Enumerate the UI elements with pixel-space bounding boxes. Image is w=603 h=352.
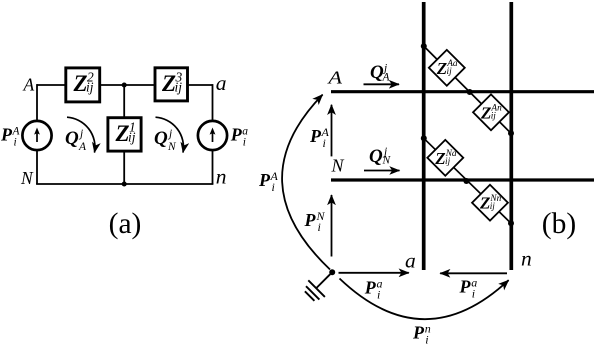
label P_i^a: [230, 125, 249, 149]
svg-text:Q: Q: [65, 128, 79, 149]
impedance Z_ij^2: [66, 68, 100, 102]
svg-text:P: P: [258, 170, 271, 190]
svg-text:i: i: [14, 137, 17, 149]
current source P_i^a (right circle with up arrow): [198, 121, 227, 150]
ground symbol: [305, 274, 330, 301]
wire top A-a: [37, 84, 213, 86]
arrow Q_A^j: [364, 83, 400, 85]
label P_i^A: [0, 125, 21, 149]
power flow arc Q_N^j: [156, 117, 184, 152]
svg-text:ij: ij: [86, 80, 94, 95]
impedance Z_ij^1: [108, 118, 141, 151]
svg-text:P: P: [309, 126, 322, 146]
arc P_i^n: [340, 279, 509, 320]
junction dot diag2 on bus n: [508, 220, 514, 226]
impedance Z_ij^Aa: [429, 50, 465, 86]
svg-text:N: N: [382, 155, 392, 167]
svg-text:P: P: [459, 277, 472, 297]
impedance Z_ij^3: [155, 68, 188, 101]
junction top: [122, 83, 127, 88]
current source P_i^A (left circle with up arrow): [22, 121, 51, 150]
svg-text:a: a: [405, 248, 416, 272]
svg-text:Q: Q: [369, 146, 383, 167]
svg-text:ij: ij: [447, 67, 453, 77]
impedance Z_ij^Nn: [472, 185, 508, 221]
svg-text:n: n: [216, 165, 227, 189]
wire middle branch: [123, 85, 125, 184]
phase line A: [331, 90, 594, 93]
power flow arc Q_A^j: [67, 117, 95, 152]
arc P_i^A (big left arc): [282, 95, 330, 270]
arrow P_i^N (vertical): [331, 195, 333, 257]
wire left branch A-N: [36, 84, 38, 184]
svg-text:ij: ij: [445, 157, 451, 167]
svg-text:ij: ij: [491, 112, 497, 122]
label P_i^A (outer): [258, 169, 279, 194]
svg-text:(a): (a): [109, 208, 142, 240]
label Q_A^j: [370, 62, 391, 83]
label Q_A^j: [65, 128, 87, 153]
svg-text:Z: Z: [436, 59, 447, 78]
label P_i^n: [412, 322, 431, 347]
arrow P_i^a (right, pointing left): [440, 272, 507, 274]
svg-text:(b): (b): [542, 208, 576, 240]
ground node dot: [329, 269, 335, 275]
svg-text:P: P: [304, 210, 317, 230]
svg-text:i: i: [318, 220, 321, 234]
label P_i^a (right): [459, 276, 478, 301]
svg-text:A: A: [78, 141, 87, 153]
svg-text:Z: Z: [480, 103, 491, 122]
coupling diagonal row A: [424, 46, 511, 133]
svg-text:ij: ij: [175, 80, 183, 95]
junction dot diag2 on line N: [463, 178, 469, 184]
svg-text:Q: Q: [154, 128, 168, 149]
label P_i^A (inner): [309, 125, 330, 150]
svg-text:P: P: [0, 125, 13, 145]
wire bottom N-n: [36, 183, 213, 185]
svg-text:i: i: [323, 136, 326, 150]
neutral line N: [331, 178, 594, 181]
svg-text:i: i: [243, 137, 246, 149]
junction dot diag1 on bus n: [508, 130, 514, 136]
arrow P_i^A (vertical): [331, 105, 333, 157]
svg-text:N: N: [331, 156, 345, 176]
impedance Z_ij^Na: [427, 140, 463, 176]
svg-text:i: i: [377, 288, 380, 302]
svg-text:ij: ij: [128, 130, 136, 145]
svg-text:a: a: [216, 71, 227, 95]
svg-text:P: P: [230, 125, 243, 145]
junction dot diag2 on bus a: [421, 135, 427, 141]
svg-text:ij: ij: [490, 202, 496, 212]
svg-text:Z: Z: [434, 149, 445, 168]
label P_i^N: [304, 209, 326, 234]
svg-text:n: n: [521, 247, 532, 271]
bus a (left vertical thick line): [422, 2, 426, 270]
svg-text:A: A: [382, 71, 391, 83]
label Q_N^j: [369, 146, 392, 167]
svg-text:P: P: [364, 278, 377, 298]
bus n (right vertical thick line): [509, 2, 513, 270]
junction dot diag1 on line A: [467, 89, 473, 95]
impedance Z_ij^An: [473, 94, 509, 130]
svg-text:N: N: [167, 141, 177, 153]
coupling diagonal row N: [424, 138, 511, 223]
arrow Q_N^j: [364, 170, 400, 172]
svg-text:i: i: [472, 287, 475, 301]
svg-text:P: P: [412, 323, 425, 343]
label Q_N^j: [154, 128, 177, 153]
label P_i^a (left): [364, 277, 383, 302]
svg-text:N: N: [20, 168, 34, 188]
svg-text:Z: Z: [479, 194, 490, 213]
arrow P_i^a (left, pointing right): [339, 272, 409, 274]
svg-text:i: i: [272, 180, 275, 194]
wire right branch a-n: [212, 84, 214, 184]
junction dot diag1 on bus a: [421, 43, 427, 49]
junction bottom: [122, 182, 127, 187]
svg-text:A: A: [23, 75, 35, 95]
svg-text:A: A: [327, 67, 343, 87]
svg-text:i: i: [425, 333, 428, 347]
